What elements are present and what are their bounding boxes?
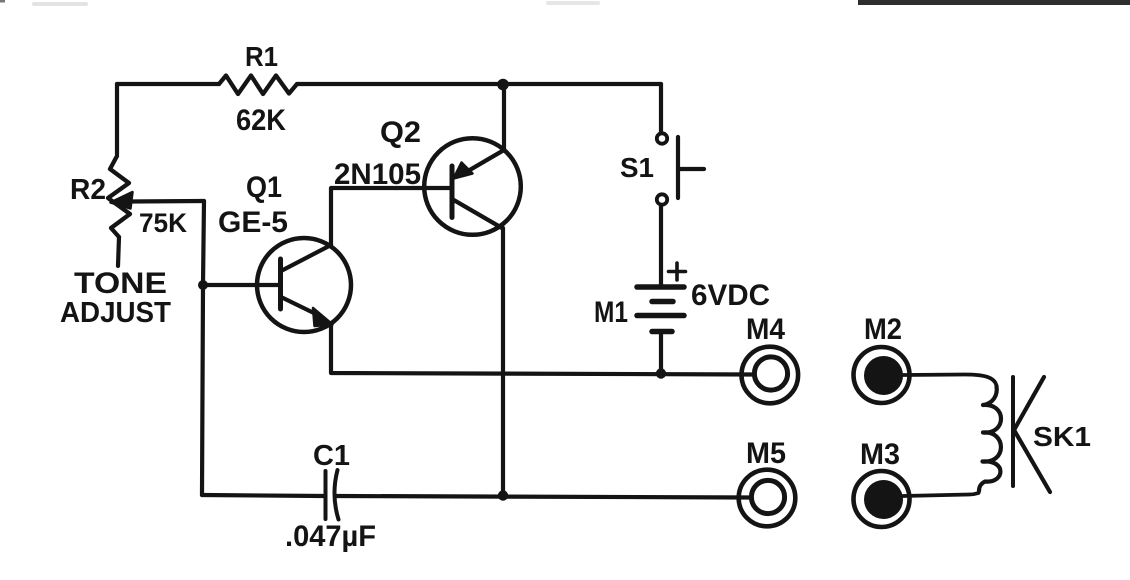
svg-text:Q2: Q2 bbox=[380, 116, 421, 149]
transistor Q2 circle bbox=[424, 138, 521, 235]
node junction dot at Q1 base bbox=[198, 280, 208, 290]
battery M1 plus sign bbox=[669, 263, 686, 280]
wire: S1 bottom to battery bbox=[659, 205, 663, 287]
capacitor C1 right plate bbox=[334, 470, 338, 520]
battery M1 plate long bottom bbox=[637, 313, 684, 319]
wire: M2 to coil bbox=[903, 375, 997, 387]
transistor Q2 emitter diagonal with arrow bbox=[468, 150, 504, 171]
transistor Q1 emitter diagonal with arrow bbox=[281, 297, 320, 316]
node junction dot bottom rail bbox=[498, 490, 508, 500]
resistor R2 vertical zigzag bbox=[108, 156, 130, 237]
wire: top rail right segment bbox=[297, 82, 661, 86]
jack M2 outer ring bbox=[854, 347, 910, 403]
jack M5 inner ring bbox=[751, 480, 784, 513]
jack M5 outer ring bbox=[739, 470, 796, 527]
inductor coil SK1 bbox=[979, 386, 1001, 491]
svg-text:M4: M4 bbox=[746, 313, 785, 346]
wire: R2 bottom lead bbox=[118, 237, 119, 266]
scan artifact corner mark bbox=[0, 0, 5, 3]
node junction dot top rail bbox=[497, 79, 509, 91]
transistor Q1 base bar bbox=[278, 259, 283, 309]
transistor Q2 base bar bbox=[450, 166, 455, 218]
svg-text:M5: M5 bbox=[746, 437, 786, 470]
svg-text:SK1: SK1 bbox=[1033, 421, 1091, 452]
transistor Q1 circle bbox=[257, 238, 351, 332]
svg-text:M1: M1 bbox=[594, 296, 628, 329]
transistor Q2 collector diagonal bbox=[452, 199, 502, 228]
battery M1 plate short bottom bbox=[652, 329, 672, 335]
svg-text:S1: S1 bbox=[620, 152, 654, 183]
switch S1 actuator bar bbox=[676, 137, 680, 198]
wire: Q1 emitter down to lower-mid rail bbox=[331, 323, 752, 375]
wire: coil bottom to M3 bbox=[903, 491, 979, 496]
svg-text:6VDC: 6VDC bbox=[691, 279, 770, 312]
speaker SK1 bar bbox=[1011, 377, 1015, 486]
battery M1 plate long top bbox=[637, 284, 684, 290]
wire: Q2 emitter up to top rail bbox=[502, 84, 506, 150]
jack M3 outer ring bbox=[854, 471, 910, 527]
scan artifact smudge top middle bbox=[546, 1, 600, 5]
wire: wiper down to Q1 base node bbox=[203, 201, 204, 285]
wire: Q2 collector down to bottom rail bbox=[501, 228, 505, 495]
svg-text:R1: R1 bbox=[245, 41, 278, 72]
svg-text:2N105: 2N105 bbox=[334, 158, 421, 191]
jack M4 inner ring bbox=[754, 357, 787, 390]
svg-text:M2: M2 bbox=[864, 313, 902, 346]
wire: Q1 collector up and right to Q2 base bbox=[331, 188, 451, 245]
svg-text:GE-5: GE-5 bbox=[218, 206, 288, 239]
svg-text:R2: R2 bbox=[70, 174, 106, 206]
jack M4 outer ring bbox=[742, 347, 799, 404]
jack M2 center plug filled bbox=[864, 356, 903, 395]
wire: battery to lower-mid rail bbox=[659, 332, 663, 374]
switch S1 plunger stub bbox=[678, 167, 704, 171]
speaker SK1 upper diagonal bbox=[1014, 377, 1044, 430]
wiper arrow of R2 bbox=[129, 199, 204, 204]
svg-text:TONE: TONE bbox=[74, 267, 167, 300]
wire: bottom rail with capacitor gap bbox=[202, 495, 750, 498]
jack M3 center plug filled bbox=[864, 480, 903, 519]
switch S1 bottom terminal circle bbox=[657, 194, 667, 204]
node junction dot battery bottom bbox=[656, 368, 666, 378]
svg-text:M3: M3 bbox=[860, 438, 900, 471]
svg-text:Q1: Q1 bbox=[246, 171, 282, 204]
svg-text:75K: 75K bbox=[139, 208, 187, 238]
wire: left vertical from top rail to R2 bbox=[115, 84, 119, 154]
wire: top rail left segment bbox=[117, 82, 219, 86]
transistor Q1 collector diagonal bbox=[281, 245, 331, 271]
scan artifact smudge top left bbox=[32, 2, 88, 6]
svg-text:C1: C1 bbox=[313, 440, 350, 472]
battery M1 plate short bbox=[652, 299, 673, 305]
transistor Q1 base lead bbox=[203, 283, 280, 287]
capacitor C1 left plate bbox=[324, 471, 328, 519]
svg-text:ADJUST: ADJUST bbox=[60, 297, 171, 329]
switch S1 top terminal circle bbox=[657, 133, 667, 143]
speaker SK1 lower diagonal bbox=[1014, 430, 1050, 492]
scan artifact bar top right bbox=[858, 0, 1130, 5]
wire: left vertical down to bottom rail bbox=[202, 285, 203, 495]
resistor R1 zigzag bbox=[219, 76, 297, 95]
switch S1 wire from top rail bbox=[659, 84, 663, 133]
svg-text:.047µF: .047µF bbox=[285, 520, 376, 553]
svg-text:62K: 62K bbox=[236, 104, 286, 137]
